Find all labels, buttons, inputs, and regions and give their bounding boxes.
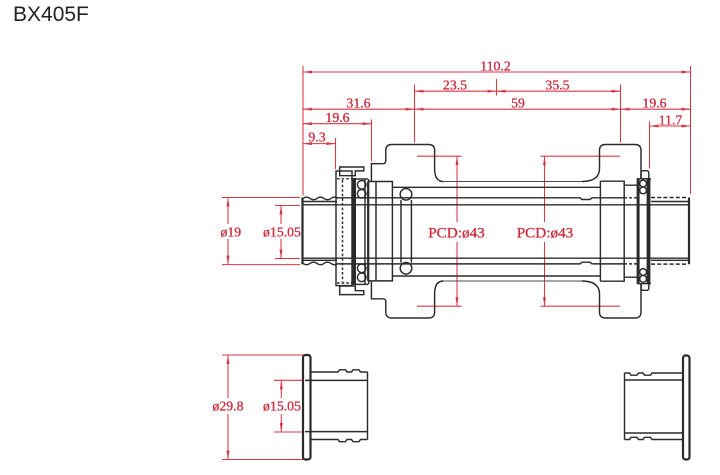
right cone nut bottom [641, 284, 649, 291]
dimension 23.5 [415, 90, 497, 92]
dimension 9.3 [303, 143, 336, 145]
dimension 31.6 [303, 108, 415, 110]
dimension PCD43 right [541, 155, 621, 157]
spoke hole bottom circle [400, 263, 412, 275]
extension line right end x=690.5 [690, 66, 692, 194]
svg-text:9.3: 9.3 [308, 130, 325, 145]
svg-text:19.6: 19.6 [642, 96, 666, 111]
extension line x=371.5 (19.6 left right end) [371, 120, 373, 162]
dimension 11.7 [650, 125, 691, 127]
spoke hole edge lines [400, 200, 402, 263]
dimension 110.2 [303, 71, 691, 73]
svg-text:19.6: 19.6 [325, 110, 349, 125]
dimension 19.6 left [303, 123, 372, 125]
axle thread crest bottom left (wavy) [303, 262, 338, 265]
svg-text:110.2: 110.2 [480, 59, 511, 74]
dimension dia15.05 detail [274, 379, 304, 381]
axle thread root bottom right [651, 259, 689, 261]
left flange ear bottom [383, 281, 443, 318]
dimension dia19 [222, 197, 300, 199]
svg-text:PCD:ø43: PCD:ø43 [428, 225, 485, 242]
left shoulder step [371, 164, 383, 299]
svg-text:11.7: 11.7 [659, 112, 683, 127]
dimension 59 [415, 108, 621, 110]
barrel line bottom [392, 275, 600, 277]
locknut knurl dashes bottom [337, 282, 354, 284]
flange tube top edge with thread notches [311, 370, 368, 372]
right bearing bottom edge [637, 283, 651, 285]
right flange ear top [582, 145, 641, 182]
right bearing race lines [637, 179, 640, 284]
extension line x=649.5 (11.7 left) [649, 122, 651, 169]
svg-text:23.5: 23.5 [443, 78, 467, 93]
dimension 19.6 right [621, 108, 691, 110]
flange plate right [683, 356, 690, 460]
left bearing bottom edge [355, 283, 369, 285]
extension tick x=496.5 (hub center) [496, 79, 498, 96]
barrel line top [392, 186, 600, 188]
axle thread dashed top right [651, 197, 687, 199]
flange tube top edge with thread notches [625, 373, 684, 375]
svg-text:31.6: 31.6 [346, 96, 370, 111]
locknut top tab [340, 167, 364, 176]
extension line x=620.5 (right flange center) [620, 85, 622, 143]
right flange ear bottom [582, 281, 641, 318]
svg-text:59: 59 [511, 96, 525, 111]
spoke hole top circle [400, 189, 412, 201]
axle thread root bottom left [303, 259, 337, 261]
right cone nut top [641, 171, 649, 179]
left bearing seal band [352, 178, 357, 285]
dimension dia29.8 detail [222, 354, 304, 356]
svg-text:ø29.8: ø29.8 [212, 399, 243, 414]
axle bore bottom line [303, 257, 690, 259]
axle outer top line through hub [337, 198, 624, 200]
svg-text:35.5: 35.5 [545, 78, 569, 93]
title BX405F [13, 3, 89, 27]
axle thread dashed bottom right [651, 263, 687, 265]
shell line A top [443, 181, 582, 183]
flange plate left [303, 355, 311, 460]
flange bore lines [305, 379, 368, 381]
axle tube left face [301, 198, 303, 265]
axle tube right face [688, 198, 690, 265]
left end cap outline [368, 182, 393, 281]
locknut bottom tab [340, 286, 364, 295]
right end cap [600, 181, 637, 281]
svg-text:PCD:ø43: PCD:ø43 [517, 225, 574, 242]
svg-text:ø19: ø19 [220, 225, 241, 240]
left bearing race lines [364, 179, 366, 284]
extension line left end x=303 [302, 66, 304, 196]
flange tube right face [367, 372, 369, 440]
shell line A bottom [443, 280, 582, 282]
axle thread crest top left (wavy) [303, 197, 338, 200]
axle thread root top right [651, 201, 689, 203]
left bearing top edge [355, 178, 369, 180]
locknut knurl dashes top [337, 178, 354, 180]
axle outer bottom line through hub [337, 262, 624, 264]
locknut body [336, 171, 352, 286]
flange tube bottom edge with thread notches [311, 440, 368, 442]
right bearing seal band [647, 179, 651, 284]
axle bore top line [303, 204, 690, 206]
dimension dia15.05 main [275, 205, 300, 207]
flange tube left face [624, 373, 626, 440]
svg-text:ø15.05: ø15.05 [263, 399, 301, 414]
extension line x=414.5 (left flange center) [414, 85, 416, 143]
svg-text:ø15.05: ø15.05 [263, 225, 301, 240]
flange tube bottom edge with thread notches [625, 437, 684, 439]
flange bore lines [625, 379, 684, 381]
dimension PCD43 left [417, 155, 462, 157]
axle thread root top left [303, 201, 337, 203]
extension line x=335.5 (9.3 right) [335, 138, 337, 169]
left flange ear top [383, 145, 443, 182]
right bearing balls [640, 180, 647, 187]
locknut knurl dashes vertical [342, 180, 344, 282]
right bearing top edge [637, 178, 651, 180]
dimension 35.5 [497, 90, 621, 92]
left bearing balls [357, 181, 366, 190]
